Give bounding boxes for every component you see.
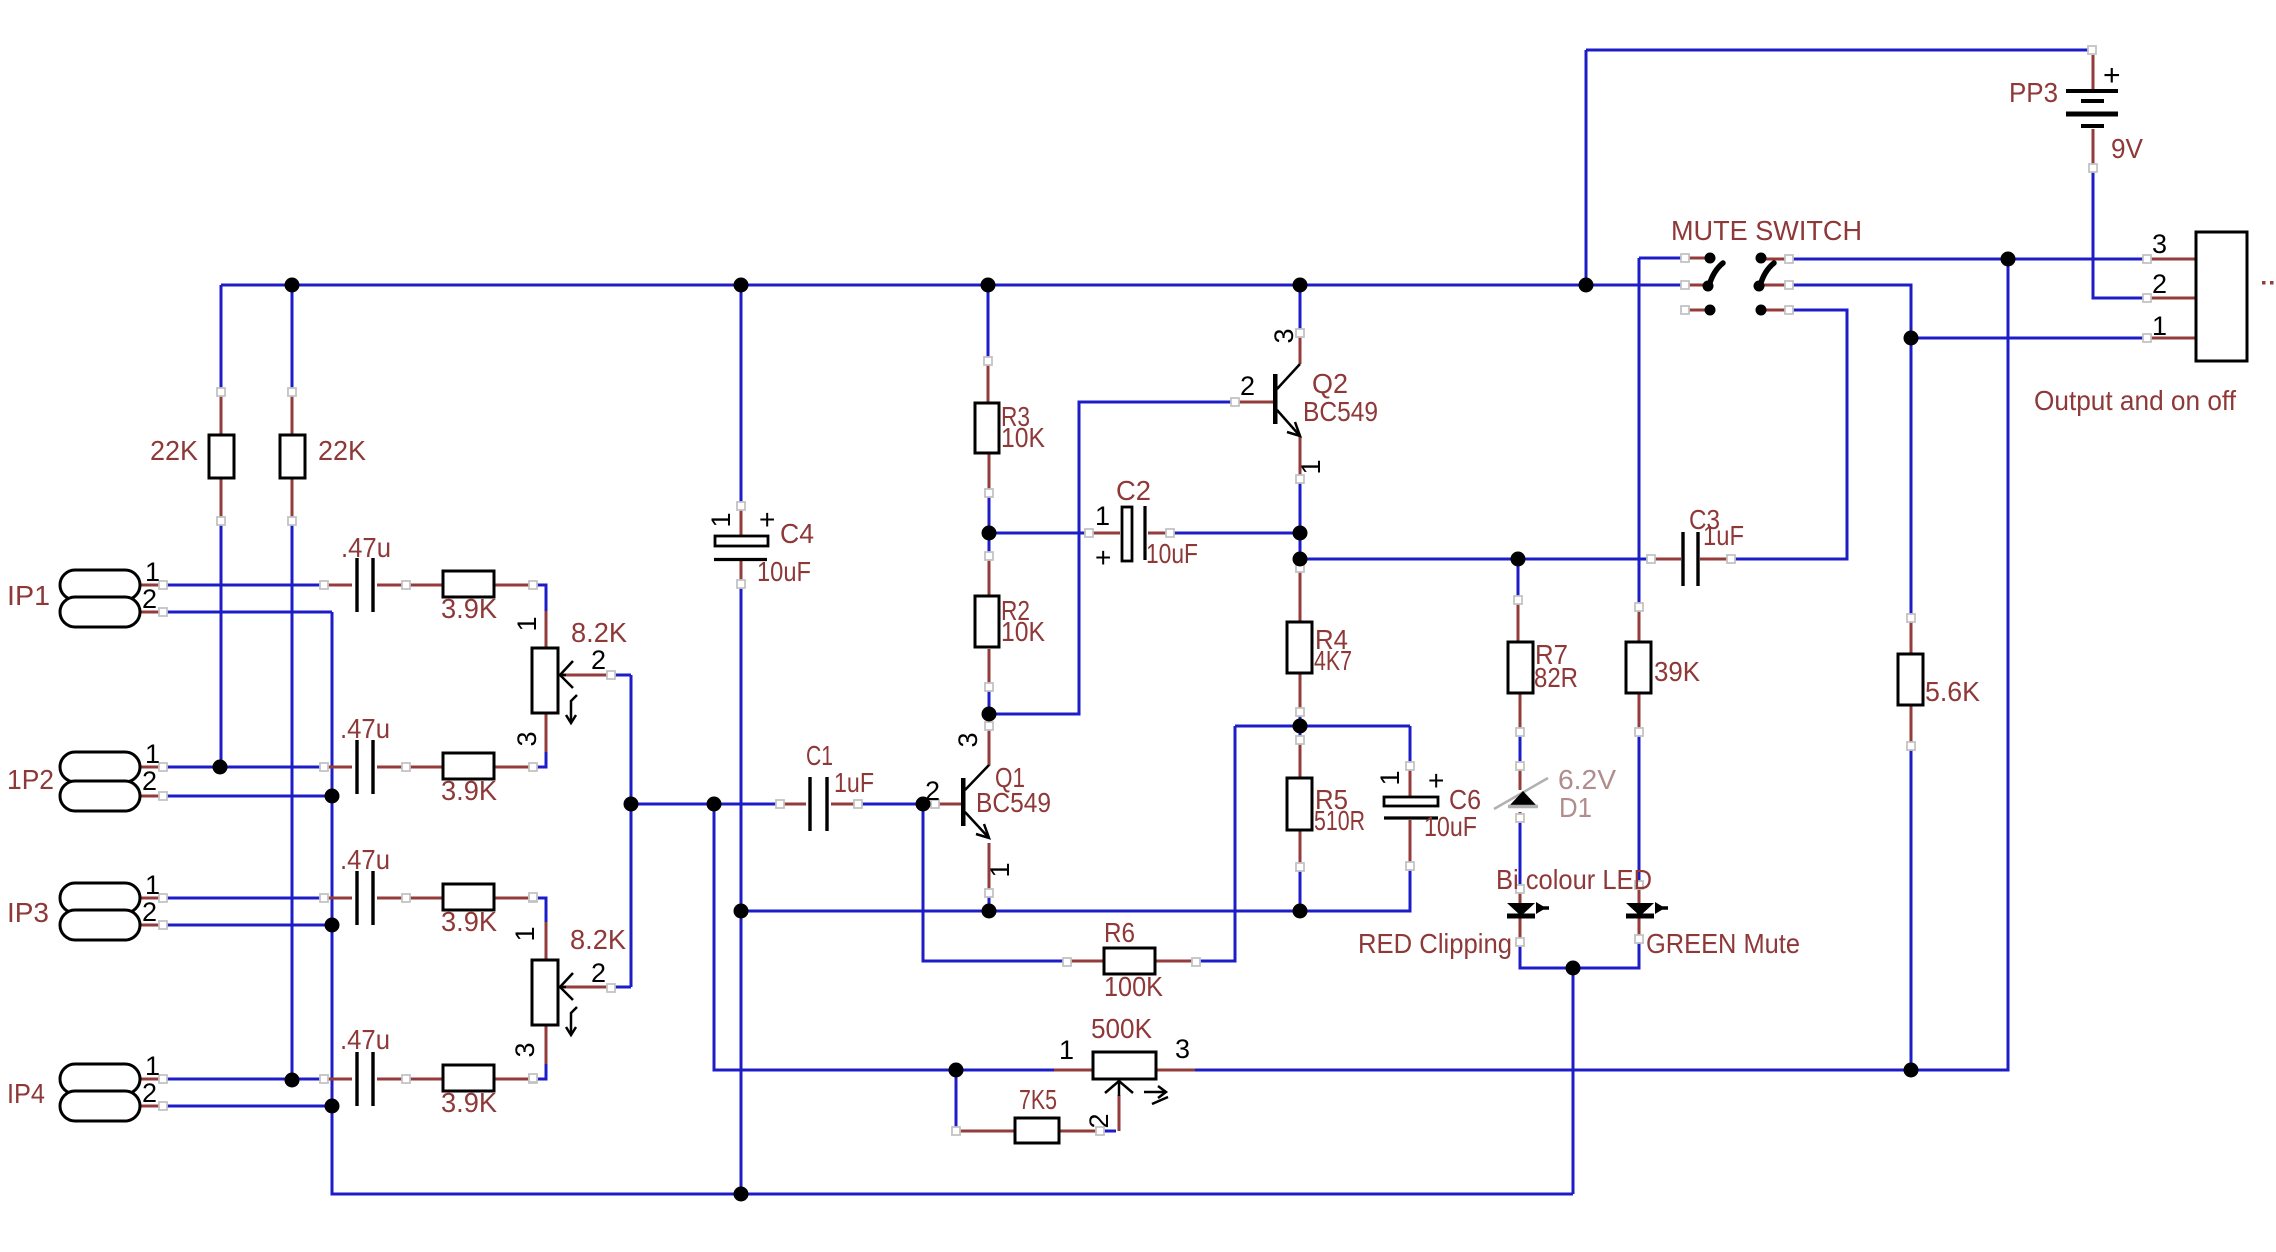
- svg-text:2: 2: [142, 897, 157, 927]
- svg-text:2: 2: [2152, 269, 2167, 299]
- svg-text:2: 2: [1084, 1113, 1114, 1128]
- svg-text:1: 1: [145, 557, 160, 587]
- svg-text:2: 2: [925, 776, 940, 806]
- svg-text:2: 2: [591, 645, 606, 675]
- svg-text:2: 2: [142, 584, 157, 614]
- svg-text:22K: 22K: [318, 435, 366, 466]
- svg-text:IP4: IP4: [7, 1078, 45, 1109]
- svg-text:500K: 500K: [1091, 1013, 1152, 1044]
- svg-text:R6: R6: [1104, 917, 1135, 948]
- svg-text:D1: D1: [1559, 792, 1592, 823]
- svg-text:1: 1: [1059, 1035, 1074, 1065]
- svg-text:3: 3: [2152, 229, 2167, 259]
- svg-text:1: 1: [145, 870, 160, 900]
- svg-text:.47u: .47u: [341, 532, 391, 563]
- svg-text:10uF: 10uF: [757, 556, 811, 587]
- svg-text:.47u: .47u: [340, 844, 390, 875]
- svg-text:MUTE SWITCH: MUTE SWITCH: [1671, 215, 1862, 246]
- svg-text:10uF: 10uF: [1146, 538, 1198, 569]
- svg-text:C4: C4: [780, 518, 814, 549]
- svg-text:BC549: BC549: [1303, 396, 1378, 427]
- svg-text:8.2K: 8.2K: [571, 617, 627, 648]
- svg-text:PP3: PP3: [2009, 77, 2058, 108]
- svg-text:6.2V: 6.2V: [1558, 764, 1616, 795]
- svg-text:GREEN Mute: GREEN Mute: [1646, 928, 1800, 959]
- svg-text:C2: C2: [1116, 475, 1151, 506]
- svg-text:1: 1: [1095, 501, 1110, 531]
- svg-text:+: +: [1428, 765, 1444, 796]
- svg-text:22K: 22K: [150, 435, 198, 466]
- svg-text:BC549: BC549: [976, 787, 1051, 818]
- svg-text:RED Clipping: RED Clipping: [1358, 928, 1512, 959]
- svg-text:3: 3: [1175, 1034, 1190, 1064]
- svg-text:1: 1: [2152, 311, 2167, 341]
- svg-text:82R: 82R: [1534, 662, 1578, 693]
- svg-text:7K5: 7K5: [1019, 1084, 1057, 1115]
- svg-text:3: 3: [510, 1042, 540, 1057]
- svg-text:1: 1: [512, 616, 542, 631]
- svg-text:.47u: .47u: [340, 713, 390, 744]
- svg-text:3.9K: 3.9K: [441, 775, 497, 806]
- svg-text:1: 1: [1296, 459, 1326, 474]
- svg-text:2: 2: [591, 958, 606, 988]
- svg-text:9V: 9V: [2111, 133, 2143, 164]
- svg-text:Output and on off: Output and on off: [2034, 385, 2236, 416]
- svg-text:1: 1: [706, 512, 736, 527]
- svg-text:8.2K: 8.2K: [570, 924, 626, 955]
- svg-text:3.9K: 3.9K: [441, 593, 497, 624]
- svg-text:1P2: 1P2: [7, 764, 54, 795]
- svg-text:C1: C1: [806, 740, 833, 771]
- svg-text:1: 1: [145, 1051, 160, 1081]
- svg-text:1: 1: [145, 739, 160, 769]
- svg-text:IP1: IP1: [7, 580, 50, 611]
- svg-text:10K: 10K: [1001, 616, 1045, 647]
- svg-text:5.6K: 5.6K: [1925, 676, 1980, 707]
- svg-text:Bi colour LED: Bi colour LED: [1496, 864, 1652, 895]
- svg-text:2: 2: [1240, 371, 1255, 401]
- svg-text:4K7: 4K7: [1314, 645, 1352, 676]
- svg-text:10uF: 10uF: [1424, 811, 1477, 842]
- svg-text:39K: 39K: [1654, 656, 1700, 687]
- svg-text:1uF: 1uF: [834, 767, 874, 798]
- svg-text:1: 1: [1375, 770, 1405, 785]
- svg-text:3.9K: 3.9K: [441, 906, 497, 937]
- svg-text:1uF: 1uF: [1703, 520, 1744, 551]
- svg-text:3: 3: [953, 732, 983, 747]
- svg-text:1: 1: [985, 862, 1015, 877]
- svg-text:3: 3: [1269, 328, 1299, 343]
- svg-text:510R: 510R: [1314, 805, 1365, 836]
- svg-text:2: 2: [142, 766, 157, 796]
- svg-text:100K: 100K: [1104, 971, 1163, 1002]
- svg-text:+: +: [1095, 542, 1111, 573]
- svg-text:3: 3: [512, 731, 542, 746]
- svg-text:.47u: .47u: [340, 1024, 390, 1055]
- svg-text:1: 1: [510, 926, 540, 941]
- svg-text:2: 2: [142, 1078, 157, 1108]
- svg-text:IP3: IP3: [7, 897, 49, 928]
- svg-text:Q2: Q2: [1312, 368, 1348, 399]
- svg-text:10K: 10K: [1001, 422, 1045, 453]
- svg-text:+: +: [2103, 59, 2121, 92]
- svg-text:+: +: [759, 504, 775, 535]
- svg-text:3.9K: 3.9K: [441, 1087, 497, 1118]
